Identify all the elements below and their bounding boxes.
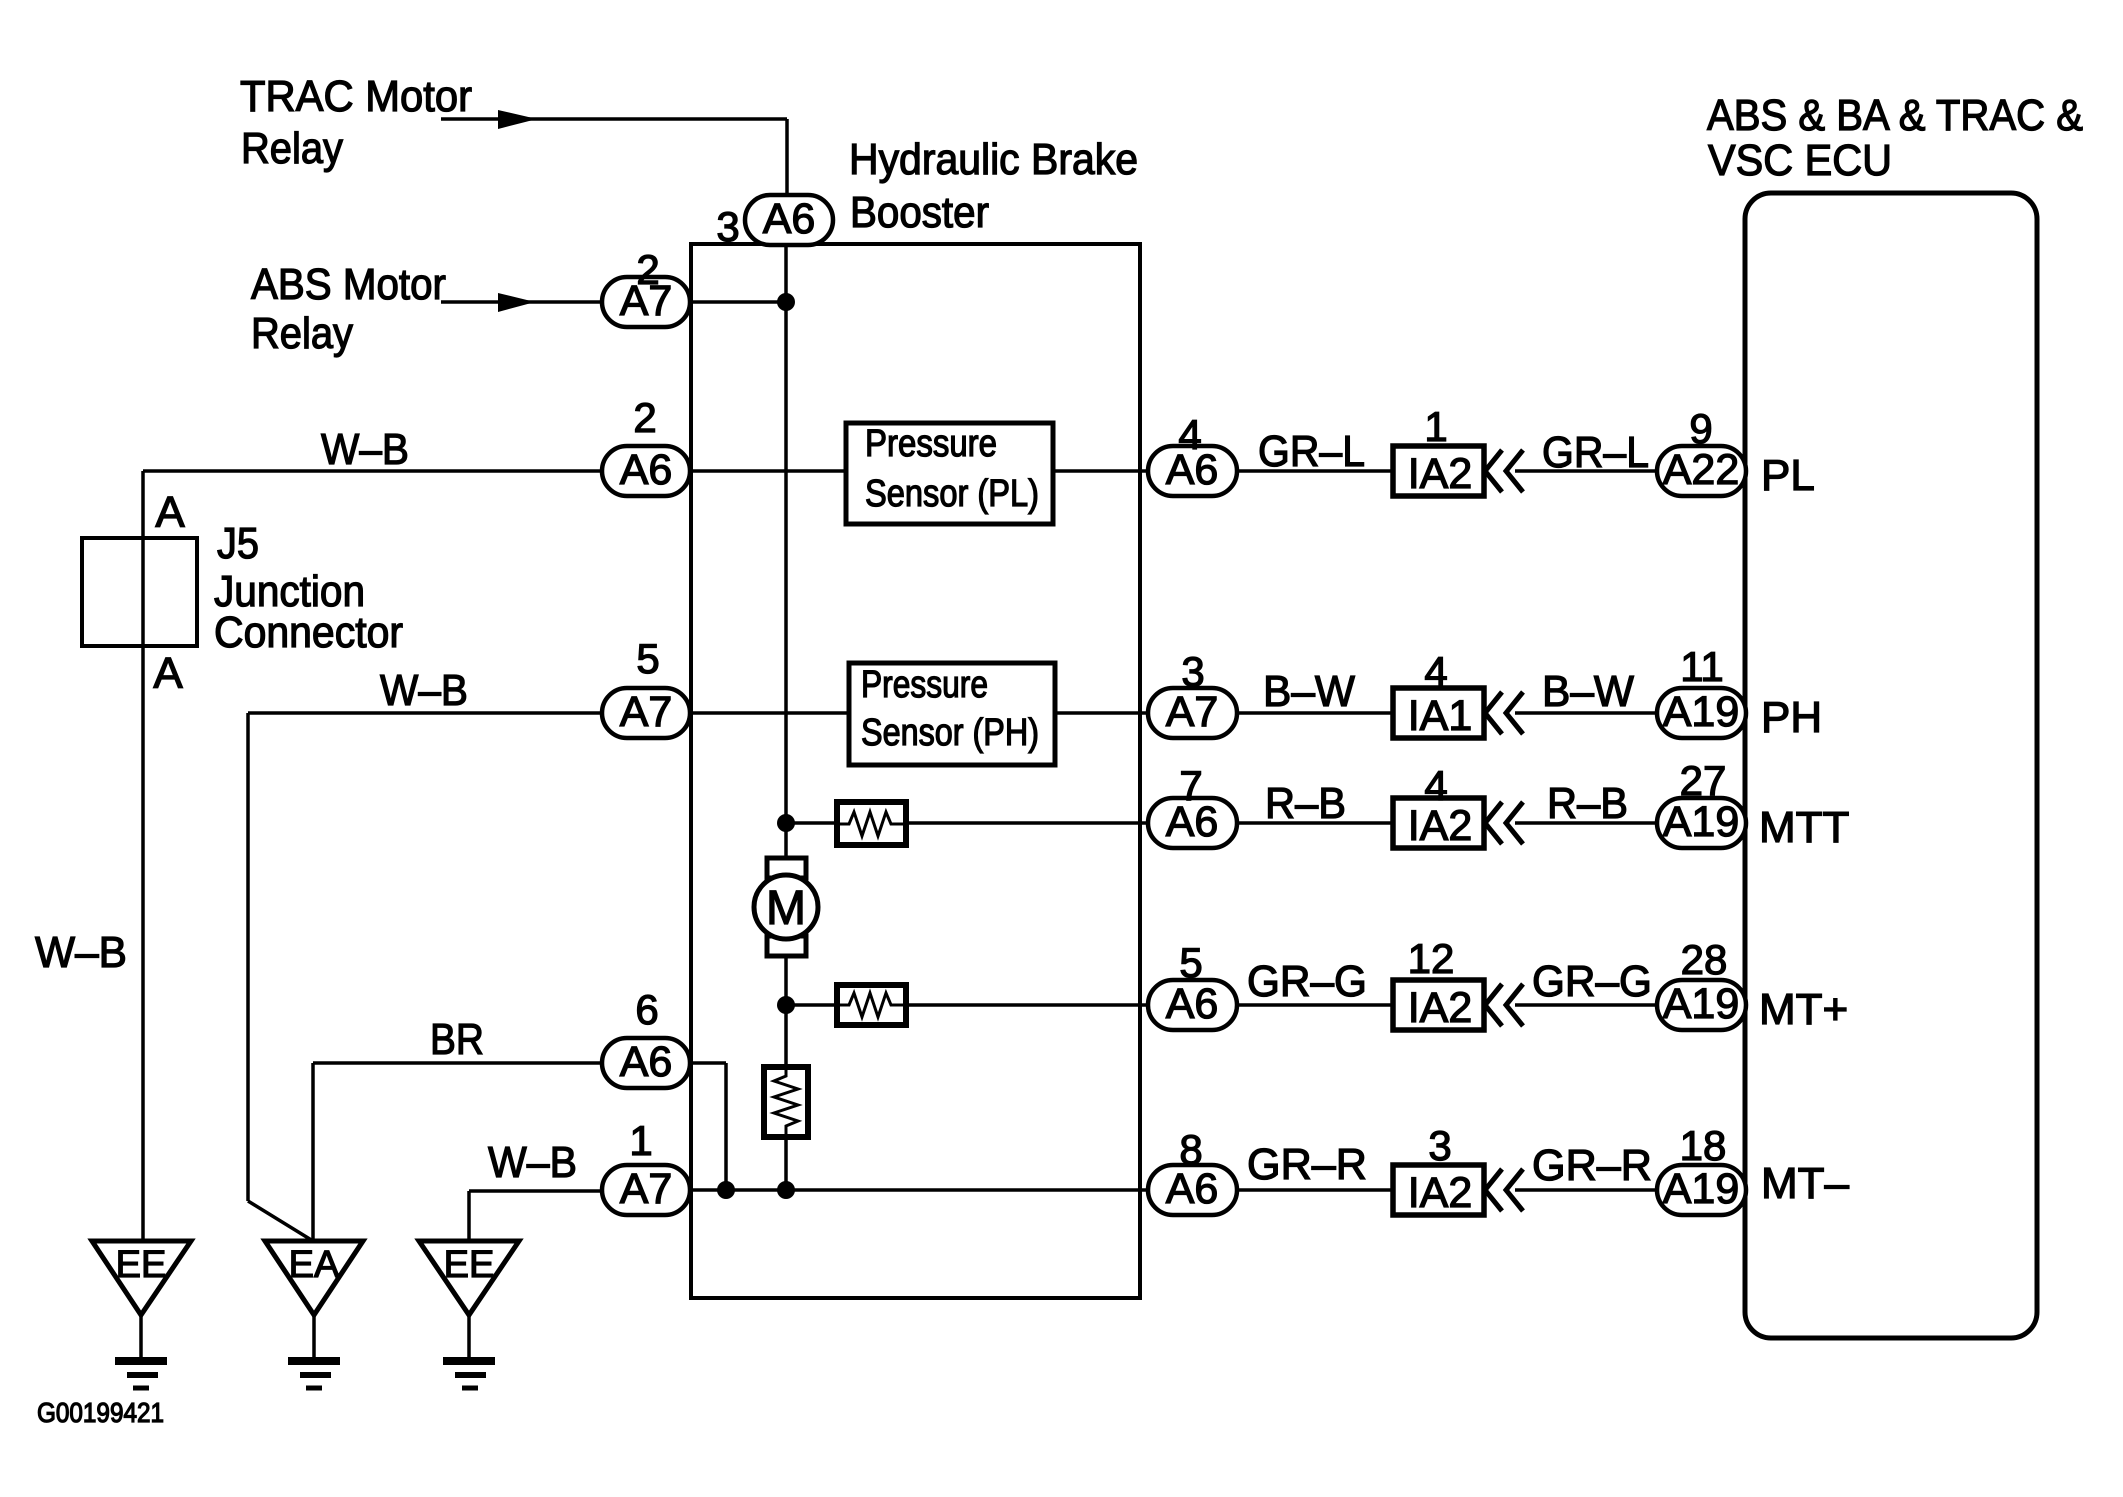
- svg-text:G00199421: G00199421: [37, 1397, 164, 1428]
- svg-text:IA2: IA2: [1408, 450, 1473, 498]
- svg-text:4: 4: [1424, 648, 1447, 695]
- svg-text:9: 9: [1689, 405, 1712, 452]
- svg-text:Sensor (PL): Sensor (PL): [865, 473, 1039, 515]
- wire GR-R to IA2: [1237, 1188, 1393, 1192]
- wire PH sensor left lead: [690, 711, 849, 715]
- connector IA2 pin 12 (row MT+): [1393, 980, 1484, 1032]
- pressure sensor PL box: [846, 423, 1053, 524]
- svg-text:B–W: B–W: [1542, 667, 1634, 716]
- svg-text:IA1: IA1: [1408, 692, 1473, 740]
- svg-text:2: 2: [636, 246, 659, 293]
- motor M pump: [754, 858, 818, 956]
- svg-text:IA2: IA2: [1408, 984, 1473, 1032]
- svg-text:A: A: [153, 649, 183, 698]
- svg-text:18: 18: [1680, 1122, 1727, 1169]
- svg-text:PH: PH: [1761, 693, 1822, 742]
- wire R-B to A19: [1515, 821, 1656, 825]
- svg-text:3: 3: [1181, 648, 1204, 695]
- svg-text:M: M: [766, 882, 806, 935]
- resistor R1 (MTT): [837, 802, 906, 845]
- connector A6 pin 2: [602, 446, 690, 496]
- wire MTT resistor to A6 pin7: [906, 821, 1150, 825]
- arrowhead TRAC relay: [498, 110, 537, 129]
- wire GR-G to A19: [1515, 1003, 1657, 1007]
- wire W-B row PL left: [143, 469, 602, 473]
- svg-text:Hydraulic Brake: Hydraulic Brake: [849, 135, 1138, 184]
- svg-text:IA2: IA2: [1408, 802, 1473, 850]
- connector IA1 pin 4 (row PH): [1393, 688, 1484, 740]
- wire BR vertical to EA ground: [311, 1063, 315, 1241]
- svg-text:Connector: Connector: [214, 608, 403, 657]
- svg-text:W–B: W–B: [488, 1138, 577, 1187]
- wire A6 pin6 drop to MT- bus: [724, 1063, 728, 1190]
- connector A19 pin 11: [1657, 688, 1746, 738]
- connector IA2 pin 3 (row MT-): [1393, 1165, 1484, 1217]
- wire R-B to IA2: [1237, 821, 1393, 825]
- svg-text:TRAC Motor: TRAC Motor: [240, 72, 472, 121]
- svg-text:Booster: Booster: [850, 188, 989, 237]
- svg-text:4: 4: [1178, 411, 1201, 458]
- wire PL sensor right lead: [1053, 469, 1150, 473]
- wire TRAC relay feed vertical drop to A6 pin 3: [785, 119, 789, 246]
- svg-text:Relay: Relay: [241, 124, 343, 173]
- wire A6 pin6 stub: [690, 1061, 726, 1065]
- node MTT junction: [777, 814, 795, 832]
- chevron pair row MT-: [1485, 1169, 1523, 1211]
- arrowhead ABS relay: [498, 293, 535, 312]
- svg-text:EA: EA: [289, 1244, 340, 1286]
- svg-text:W–B: W–B: [380, 666, 468, 715]
- J5 junction connector box: [82, 538, 197, 646]
- svg-text:GR–R: GR–R: [1532, 1141, 1652, 1190]
- svg-text:GR–L: GR–L: [1258, 427, 1365, 476]
- wire B-W to IA1: [1236, 711, 1393, 715]
- svg-text:5: 5: [1179, 939, 1202, 986]
- svg-text:A19: A19: [1663, 980, 1740, 1028]
- wire TRAC relay feed horizontal: [441, 117, 787, 121]
- wire BR horizontal: [313, 1061, 602, 1065]
- svg-text:R–B: R–B: [1547, 779, 1628, 828]
- node resistor junction on MT- bus: [777, 1181, 795, 1199]
- svg-text:GR–G: GR–G: [1532, 957, 1652, 1006]
- svg-text:A19: A19: [1663, 798, 1740, 846]
- svg-text:A6: A6: [620, 1038, 673, 1086]
- svg-text:27: 27: [1680, 757, 1727, 804]
- wire ABS relay feed: [441, 300, 602, 304]
- svg-text:A: A: [155, 488, 185, 537]
- connector A6 pin 3 (top): [745, 195, 833, 245]
- svg-text:A6: A6: [1166, 980, 1219, 1028]
- svg-text:MT+: MT+: [1759, 985, 1848, 1034]
- connector A7 pin 3 (right): [1148, 688, 1237, 738]
- ground EA (middle): [265, 1241, 363, 1388]
- svg-text:A19: A19: [1663, 688, 1740, 736]
- pressure sensor PH box: [849, 663, 1055, 765]
- svg-text:J5: J5: [217, 519, 259, 568]
- connector IA2 pin 4 (row MTT): [1393, 798, 1484, 850]
- wire W-B row MT- left: [469, 1189, 602, 1193]
- connector A19 pin 28: [1657, 980, 1746, 1030]
- ground EE (right): [419, 1241, 519, 1388]
- ABS & BA & TRAC & VSC ECU box: [1745, 193, 2037, 1338]
- svg-text:PL: PL: [1761, 451, 1815, 500]
- svg-text:4: 4: [1424, 762, 1447, 809]
- svg-text:2: 2: [633, 394, 656, 441]
- svg-text:EE: EE: [116, 1244, 167, 1286]
- svg-text:1: 1: [629, 1117, 652, 1164]
- wire motor to MT+ node: [784, 954, 788, 1067]
- resistor R2 (MT+): [837, 985, 906, 1025]
- wire W-B left vertical to EE ground: [141, 471, 145, 1241]
- node ABS relay junction: [777, 293, 795, 311]
- connector A19 pin 27: [1657, 798, 1746, 848]
- wire W-B PH diagonal into EA ground: [248, 1201, 313, 1241]
- wire central bus upper (A6 pin3 down to motor): [784, 246, 788, 860]
- connector A6 pin 4 (right): [1148, 446, 1237, 496]
- connector A6 pin 7 (right): [1148, 798, 1237, 848]
- wire GR-G to IA2: [1237, 1003, 1393, 1007]
- chevron pair row MT+: [1485, 984, 1523, 1026]
- svg-text:W–B: W–B: [35, 928, 127, 977]
- connector A7 pin 1: [602, 1165, 690, 1215]
- wire MTT resistor stub: [786, 821, 837, 825]
- svg-text:A19: A19: [1663, 1165, 1740, 1213]
- svg-text:GR–G: GR–G: [1247, 957, 1367, 1006]
- svg-text:A22: A22: [1663, 446, 1740, 494]
- connector A19 pin 18: [1657, 1165, 1746, 1215]
- svg-text:ABS Motor: ABS Motor: [251, 260, 446, 309]
- wire GR-L to A22: [1515, 469, 1657, 473]
- svg-text:R–B: R–B: [1265, 779, 1346, 828]
- svg-text:MTT: MTT: [1759, 803, 1849, 852]
- svg-text:Relay: Relay: [251, 309, 353, 358]
- svg-text:BR: BR: [430, 1015, 484, 1064]
- svg-text:3: 3: [1428, 1122, 1451, 1169]
- connector A7 pin 2: [602, 277, 690, 327]
- connector A6 pin 5 (right): [1148, 980, 1237, 1030]
- svg-text:Pressure: Pressure: [865, 423, 997, 465]
- connector A7 pin 5: [602, 688, 690, 738]
- wire GR-R to A19: [1515, 1188, 1657, 1192]
- svg-text:1: 1: [1424, 403, 1447, 450]
- wire W-B MT- vertical to EE ground: [467, 1191, 471, 1241]
- chevron pair row MTT: [1485, 802, 1523, 844]
- chevron pair row PL: [1485, 450, 1523, 492]
- wire GR-L to IA2: [1237, 469, 1393, 473]
- svg-text:3: 3: [716, 203, 739, 250]
- connector IA2 pin 1 (row PL): [1393, 446, 1484, 498]
- svg-text:VSC ECU: VSC ECU: [1708, 136, 1892, 185]
- svg-text:Pressure: Pressure: [861, 664, 988, 706]
- wire B-W to A19: [1515, 711, 1656, 715]
- wire MT+ resistor to A6 pin5: [906, 1003, 1150, 1007]
- connector A6 pin 8 (right): [1148, 1165, 1237, 1215]
- svg-text:EE: EE: [444, 1244, 495, 1286]
- node BR junction on MT- bus: [717, 1181, 735, 1199]
- wire PH sensor right lead: [1055, 711, 1150, 715]
- resistor R3 (vertical): [764, 1067, 808, 1137]
- svg-text:11: 11: [1680, 643, 1724, 690]
- wire MT- bus inside booster: [690, 1188, 1150, 1192]
- svg-text:5: 5: [636, 635, 659, 682]
- svg-text:GR–L: GR–L: [1542, 428, 1649, 477]
- svg-text:7: 7: [1179, 762, 1202, 809]
- svg-text:12: 12: [1408, 935, 1455, 982]
- wire W-B PH vertical: [246, 713, 250, 1201]
- hydraulic brake booster box: [691, 244, 1140, 1298]
- svg-text:Sensor (PH): Sensor (PH): [861, 712, 1039, 754]
- svg-text:A7: A7: [620, 688, 673, 736]
- svg-text:6: 6: [635, 986, 658, 1033]
- svg-text:W–B: W–B: [321, 425, 409, 474]
- svg-text:IA2: IA2: [1408, 1169, 1473, 1217]
- wire PL sensor left lead: [690, 469, 846, 473]
- svg-text:B–W: B–W: [1263, 667, 1355, 716]
- chevron pair row PH: [1485, 692, 1523, 734]
- wire A7 pin2 to central bus: [690, 300, 786, 304]
- svg-text:A6: A6: [763, 195, 816, 243]
- svg-text:8: 8: [1179, 1126, 1202, 1173]
- svg-text:MT–: MT–: [1761, 1159, 1850, 1208]
- connector A22 pin 9: [1657, 446, 1746, 496]
- connector A6 pin 6: [602, 1038, 690, 1088]
- svg-text:A7: A7: [620, 1165, 673, 1213]
- svg-text:A7: A7: [1166, 688, 1219, 736]
- svg-text:GR–R: GR–R: [1247, 1140, 1367, 1189]
- svg-text:ABS & BA & TRAC &: ABS & BA & TRAC &: [1707, 91, 2083, 140]
- node MT+ junction: [777, 996, 795, 1014]
- svg-text:28: 28: [1681, 936, 1728, 983]
- wire vertical resistor to MT- node: [784, 1137, 788, 1190]
- svg-text:A6: A6: [620, 446, 673, 494]
- ground EE (left): [92, 1241, 191, 1388]
- wire MT+ resistor stub: [786, 1003, 837, 1007]
- wire W-B row PH left: [248, 711, 602, 715]
